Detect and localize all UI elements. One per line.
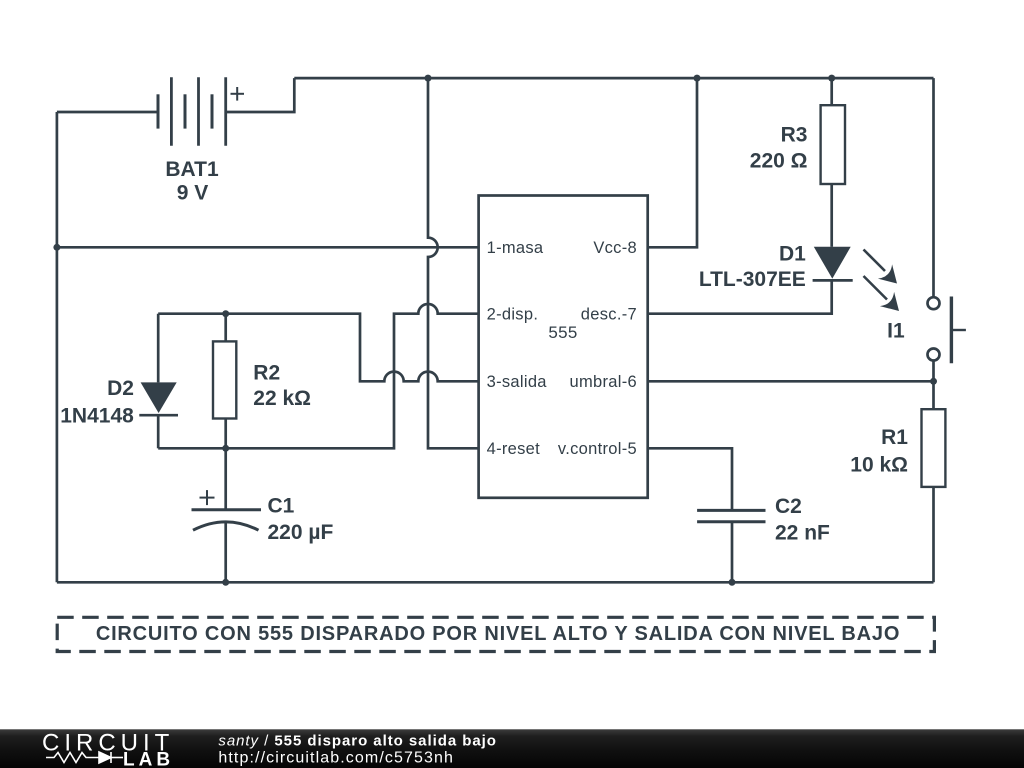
svg-text:1-masa: 1-masa	[487, 239, 544, 257]
svg-text:santy / 555 disparo alto salid: santy / 555 disparo alto salida bajo	[218, 732, 496, 749]
wire pin2 disp to R2/D2/C1 node (hop over reset drop)	[158, 304, 478, 448]
IC 555 box U1	[479, 196, 648, 498]
svg-text:v.control-5: v.control-5	[558, 440, 637, 458]
resistor R3	[821, 105, 845, 184]
wire pin8 Vcc stub to top rail	[648, 78, 697, 247]
wire pin3 salida to R2/D2 top (two hops)	[158, 314, 478, 382]
LED D1 light arrow upper	[864, 250, 898, 284]
label R1 value	[850, 426, 908, 477]
svg-text:desc.-7: desc.-7	[581, 305, 637, 323]
wire R2 top stub	[224, 314, 227, 342]
svg-text:I1: I1	[887, 320, 905, 343]
resistor R1	[922, 409, 946, 487]
svg-text:22 kΩ: 22 kΩ	[253, 387, 311, 410]
wire right drop to pushbutton	[932, 78, 935, 297]
svg-text:LTL-307EE: LTL-307EE	[699, 268, 806, 291]
capacitor C1 plates	[192, 510, 262, 530]
battery BAT1 plates	[158, 77, 226, 146]
svg-text:umbral-6: umbral-6	[569, 373, 637, 391]
svg-text:22 nF: 22 nF	[775, 521, 830, 544]
svg-text:R3: R3	[781, 124, 808, 147]
label BAT1 value	[165, 158, 219, 204]
label C1 value	[268, 495, 334, 545]
wire R3 top stub	[830, 78, 833, 105]
C1 plus sign	[200, 490, 215, 505]
wire pin6 umbral to right wire	[648, 380, 934, 383]
wire C1 top stub	[224, 448, 227, 510]
svg-text:1N4148: 1N4148	[60, 404, 134, 427]
svg-text:BAT1: BAT1	[165, 158, 219, 181]
svg-text:http://circuitlab.com/c5753nh: http://circuitlab.com/c5753nh	[218, 750, 454, 767]
svg-text:3-salida: 3-salida	[487, 373, 548, 391]
footer bar	[0, 729, 1024, 768]
resistor R2	[213, 341, 236, 418]
wire bottom ground rail	[57, 581, 934, 584]
svg-text:D2: D2	[107, 377, 134, 400]
wire R3 bottom to LED	[830, 184, 833, 247]
wire C2 bottom to ground rail	[731, 522, 734, 583]
title dashed box	[57, 617, 934, 651]
svg-text:LAB: LAB	[123, 749, 174, 768]
wire Vcc rail down to pin4 reset (hops over masa wire)	[428, 78, 479, 448]
capacitor C2 plates	[697, 510, 765, 521]
svg-text:555: 555	[548, 323, 577, 342]
IC 555 pin labels	[487, 239, 637, 458]
pushbutton I1	[928, 297, 966, 364]
svg-text:R2: R2	[253, 362, 280, 385]
junction node dots	[53, 244, 60, 251]
wire R1 bottom to ground rail	[932, 487, 935, 582]
wire button bottom to R1 top	[932, 361, 935, 410]
wire battery minus lead	[57, 111, 158, 114]
svg-text:9 V: 9 V	[177, 182, 209, 205]
LED D1 body	[813, 247, 853, 281]
label R3 value	[750, 124, 808, 173]
svg-text:CIRCUITO CON 555 DISPARADO POR: CIRCUITO CON 555 DISPARADO POR NIVEL ALT…	[96, 623, 900, 645]
svg-text:4-reset: 4-reset	[487, 440, 541, 458]
label C2 value	[775, 495, 830, 544]
wire pin1 masa to left rail	[57, 246, 479, 249]
svg-text:2-disp.: 2-disp.	[487, 305, 539, 323]
svg-text:220 µF: 220 µF	[268, 521, 334, 544]
wire R2 bottom stub	[224, 419, 227, 449]
LED D1 light arrow lower	[864, 276, 900, 311]
wire D2 bottom stub	[157, 415, 160, 448]
svg-text:R1: R1	[881, 426, 908, 449]
wire battery plus lead up to top rail	[226, 78, 295, 112]
footer logo resistor zigzag and diode	[46, 752, 123, 763]
svg-text:Vcc-8: Vcc-8	[593, 239, 637, 257]
wire D2 top stub	[157, 314, 160, 383]
svg-text:10 kΩ: 10 kΩ	[850, 454, 908, 477]
wire pin5 v.control to C2	[648, 448, 732, 510]
svg-text:D1: D1	[779, 243, 806, 266]
svg-text:220 Ω: 220 Ω	[750, 150, 808, 173]
label D1 value	[699, 243, 806, 291]
wire top Vcc rail	[294, 77, 933, 80]
diode D2 body	[139, 382, 178, 415]
wire C1 bottom to ground rail	[224, 522, 227, 583]
label R2 value	[253, 362, 311, 411]
svg-text:C2: C2	[775, 495, 802, 518]
label D2 value	[60, 377, 134, 428]
wire left vertical (ground side)	[56, 112, 59, 582]
wire pin7 desc to LED cathode	[648, 280, 832, 313]
svg-text:C1: C1	[268, 495, 295, 518]
battery plus sign	[231, 87, 245, 101]
